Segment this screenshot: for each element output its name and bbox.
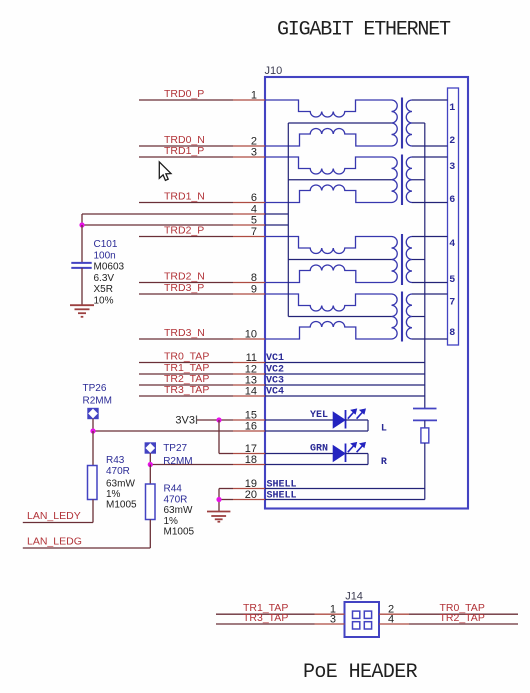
wire net row pin 16	[93, 430, 233, 432]
junction shell	[216, 497, 221, 502]
3V3 port tick	[196, 416, 198, 425]
connector J14 body	[345, 602, 380, 637]
transformer right winding y157.0	[406, 157, 412, 203]
wire LAN_LEDG	[23, 547, 151, 549]
left centre tap wire	[288, 179, 391, 181]
test point TP26	[88, 408, 98, 418]
wire LAN_LEDY	[23, 522, 93, 524]
wire right tap bus vertical	[424, 123, 426, 409]
LED GRN arrow	[357, 446, 363, 452]
right centre tap wire	[412, 316, 425, 318]
pin 19 stub	[233, 488, 265, 490]
transformer left winding y294.0	[392, 294, 398, 339]
ground C101 bar	[78, 312, 86, 314]
svg-text:63mW: 63mW	[106, 478, 135, 489]
pin 13 stub	[233, 384, 265, 386]
pin 17 stub	[233, 453, 265, 455]
svg-text:470R: 470R	[164, 494, 188, 505]
wire pin4 to pin5 vertical	[81, 214, 83, 225]
wire net row pin 7	[139, 236, 233, 238]
wire net row pin 8	[139, 282, 233, 284]
svg-text:J10: J10	[265, 65, 283, 77]
wire to R43	[92, 431, 94, 466]
J14 pin square	[364, 622, 371, 629]
capacitor plate top	[413, 408, 437, 410]
svg-text:5: 5	[449, 275, 455, 286]
svg-text:10: 10	[245, 329, 257, 341]
pin 15 stub	[233, 419, 265, 421]
svg-text:TP26: TP26	[83, 383, 107, 394]
svg-text:YEL: YEL	[310, 410, 328, 421]
J14 pin square	[353, 622, 360, 629]
wire net row pin 19	[219, 488, 233, 490]
wire LED YEL return	[265, 430, 368, 432]
wire net row pin 13	[139, 384, 233, 386]
transformer left winding y157.0	[392, 157, 398, 203]
svg-text:C101: C101	[94, 239, 118, 250]
svg-text:8: 8	[251, 272, 257, 284]
svg-text:TRD2_P: TRD2_P	[164, 225, 204, 237]
svg-text:4: 4	[388, 614, 394, 626]
svg-text:14: 14	[245, 386, 257, 398]
svg-text:3: 3	[251, 147, 257, 159]
wire LED YEL cathode	[346, 419, 369, 421]
right centre tap wire	[412, 259, 425, 261]
svg-text:6.3V: 6.3V	[94, 273, 115, 284]
svg-text:GIGABIT ETHERNET: GIGABIT ETHERNET	[277, 19, 451, 42]
pin 12 stub	[233, 373, 265, 375]
ground C101 bar	[81, 316, 84, 318]
wire net row pin 17	[219, 453, 233, 455]
ground shell bar	[207, 511, 230, 513]
svg-text:R: R	[381, 457, 387, 468]
wire SHELL 20 inside	[265, 499, 425, 501]
wire winding bottom to jack	[412, 202, 448, 204]
junction C101	[79, 222, 84, 227]
wire R43 to LAN_LEDY	[92, 500, 94, 523]
svg-text:M0603: M0603	[94, 262, 125, 273]
left centre tap wire	[288, 122, 391, 124]
wire TR0_TAP	[409, 613, 518, 615]
svg-text:LAN_LEDG: LAN_LEDG	[27, 536, 82, 548]
svg-text:7: 7	[449, 298, 455, 309]
resistor internal	[421, 428, 429, 443]
wire TP27 stem	[149, 453, 151, 464]
pin 1 stub	[233, 99, 265, 101]
svg-text:R2MM: R2MM	[83, 396, 112, 407]
right centre tap wire	[412, 122, 425, 124]
svg-text:R2MM: R2MM	[163, 456, 192, 467]
svg-text:GRN: GRN	[310, 444, 328, 455]
wire VC4 inside	[265, 395, 425, 397]
pin 9 stub	[233, 293, 265, 295]
wire TR1_TAP	[216, 613, 315, 615]
pin 2 stub	[233, 145, 265, 147]
wire winding top to jack	[412, 293, 448, 295]
wire VC2 inside	[265, 373, 425, 375]
capacitor plate bottom	[413, 419, 437, 421]
J14 pin 1 stub	[315, 613, 345, 615]
svg-text:R44: R44	[164, 484, 183, 495]
capacitor C101 plate bottom	[71, 267, 91, 269]
pin 16 stub	[233, 430, 265, 432]
wire net row pin 15	[197, 419, 234, 421]
wire net row pin 10	[139, 338, 233, 340]
svg-text:2: 2	[449, 136, 455, 147]
wire TP26 stem	[92, 419, 94, 431]
choke winding bottom y146.0	[265, 128, 392, 146]
LED GRN cathode bar	[345, 444, 347, 463]
J14 pin square	[364, 611, 371, 618]
J14 pin 2 stub	[379, 613, 409, 615]
LED GRN arrow	[348, 446, 354, 452]
svg-text:1%: 1%	[164, 516, 179, 527]
junction TP27	[148, 462, 153, 467]
wire net row pin 2	[139, 145, 233, 147]
svg-text:4: 4	[449, 239, 455, 250]
wire TR2_TAP	[409, 623, 518, 625]
svg-text:TRD1_P: TRD1_P	[164, 145, 204, 157]
svg-text:6: 6	[449, 195, 455, 206]
wire net row pin 20	[219, 499, 233, 501]
wire junction to C101	[81, 225, 83, 263]
junction TP26	[90, 428, 95, 433]
wire VC1 inside	[265, 362, 425, 364]
svg-text:7: 7	[251, 226, 257, 238]
choke winding bottom y202.5	[265, 185, 392, 203]
svg-text:470R: 470R	[106, 466, 130, 477]
wire winding top to jack	[412, 99, 448, 101]
resistor R43	[88, 466, 98, 500]
pin 11 stub	[233, 362, 265, 364]
pin 14 stub	[233, 395, 265, 397]
wire cap to resistor	[424, 420, 426, 428]
wire pin5 inside	[265, 224, 288, 226]
transformer right winding y236.5	[406, 237, 412, 283]
LED YEL arrow	[357, 412, 363, 418]
capacitor C101 plate top	[71, 262, 91, 264]
svg-text:3V3: 3V3	[175, 415, 195, 427]
LED YEL arrow	[348, 412, 354, 418]
wire net row pin 3	[139, 156, 233, 158]
wire net row pin 14	[139, 395, 233, 397]
pin 6 stub	[233, 202, 265, 204]
ground shell bar	[211, 515, 226, 517]
svg-text:TR2_TAP: TR2_TAP	[440, 612, 485, 624]
LED YEL cathode bar	[345, 410, 347, 429]
choke winding bottom y339.0	[265, 321, 392, 339]
wire R44 to LAN_LEDG	[149, 520, 151, 549]
svg-text:X5R: X5R	[94, 284, 113, 295]
test point TP27	[145, 443, 155, 453]
wire pin4 inside	[265, 213, 288, 215]
transformer left winding y100.0	[392, 100, 398, 146]
svg-text:PoE HEADER: PoE HEADER	[303, 661, 418, 684]
wire SHELL 19 inside	[265, 488, 425, 490]
wire LED GRN anode	[265, 453, 333, 455]
pin 4 stub	[233, 213, 265, 215]
pin 18 stub	[233, 464, 265, 466]
wire net row pin 11	[139, 362, 233, 364]
svg-text:20: 20	[245, 489, 257, 501]
svg-text:TRD3_N: TRD3_N	[164, 327, 205, 339]
wire winding bottom to jack	[412, 282, 448, 284]
svg-text:18: 18	[245, 454, 257, 466]
svg-text:3: 3	[330, 614, 336, 626]
wire TR3_TAP	[216, 623, 315, 625]
resistor R44	[146, 484, 156, 520]
ground C101 bar	[75, 308, 90, 310]
wire net row pin 4	[82, 213, 233, 215]
svg-text:M1005: M1005	[164, 527, 195, 538]
svg-text:1: 1	[251, 90, 257, 102]
svg-text:TRD3_P: TRD3_P	[164, 282, 204, 294]
svg-text:LAN_LEDY: LAN_LEDY	[27, 510, 81, 522]
wire net row pin 18	[150, 464, 233, 466]
pin 7 stub	[233, 236, 265, 238]
transformer core	[401, 292, 403, 342]
LED GRN triangle	[333, 446, 345, 462]
wire winding bottom to jack	[412, 145, 448, 147]
wire LED GRN loop vertical	[367, 454, 369, 465]
pin 20 stub	[233, 499, 265, 501]
wire net row pin 9	[139, 293, 233, 295]
svg-text:16: 16	[245, 421, 257, 433]
wire VC3 inside	[265, 384, 425, 386]
ground shell bar	[215, 518, 223, 520]
pin 3 stub	[233, 156, 265, 158]
svg-text:TP27: TP27	[163, 443, 187, 454]
connector J10 body	[265, 77, 468, 509]
choke winding top y100.0	[265, 100, 392, 117]
svg-text:TR3_TAP: TR3_TAP	[164, 384, 209, 396]
svg-text:11: 11	[246, 352, 257, 364]
wire shell to ground	[218, 489, 220, 512]
J14 pin 3 stub	[315, 623, 345, 625]
wire winding top to jack	[412, 156, 448, 158]
svg-text:1: 1	[449, 103, 455, 114]
svg-text:9: 9	[251, 284, 257, 296]
choke winding top y236.5	[265, 237, 392, 254]
pin 10 stub	[233, 338, 265, 340]
svg-text:6: 6	[251, 192, 257, 204]
svg-text:TR0_TAP: TR0_TAP	[164, 351, 209, 363]
svg-text:TRD2_N: TRD2_N	[164, 271, 205, 283]
wire left tap bus vertical	[287, 123, 289, 317]
wire 3V3 to pin17	[218, 420, 220, 454]
wire net row pin 5	[82, 224, 233, 226]
svg-text:3: 3	[449, 162, 455, 173]
wire net row pin 6	[139, 202, 233, 204]
wire to R44	[149, 465, 151, 485]
svg-text:J14: J14	[345, 591, 363, 603]
ground C101 bar	[70, 304, 94, 306]
J14 pin square	[353, 611, 360, 618]
wire winding bottom to jack	[412, 338, 448, 340]
wire resistor to shell	[424, 443, 426, 500]
choke winding top y157.0	[265, 157, 392, 174]
choke winding bottom y282.5	[265, 265, 392, 283]
junction 3V3	[216, 417, 221, 422]
svg-text:5: 5	[251, 215, 257, 227]
left centre tap wire	[288, 259, 391, 261]
J14 pin 4 stub	[379, 623, 409, 625]
wire LED YEL loop vertical	[367, 420, 369, 431]
wire net row pin 12	[139, 373, 233, 375]
left centre tap wire	[288, 316, 391, 318]
svg-text:L: L	[381, 424, 387, 435]
choke winding top y294.0	[265, 294, 392, 311]
LED YEL triangle	[333, 412, 345, 428]
wire LED GRN return	[265, 464, 368, 466]
svg-text:TRD1_N: TRD1_N	[164, 191, 205, 203]
mouse cursor	[159, 162, 171, 181]
svg-text:R43: R43	[106, 455, 125, 466]
svg-text:TRD0_P: TRD0_P	[164, 88, 204, 100]
J10 RJ45 pin strip	[448, 88, 459, 345]
pin 5 stub	[233, 224, 265, 226]
svg-text:1%: 1%	[106, 489, 121, 500]
transformer left winding y236.5	[392, 237, 398, 283]
svg-text:63mW: 63mW	[164, 505, 193, 516]
transformer core	[401, 98, 403, 149]
wire C101 to ground	[81, 268, 83, 305]
svg-text:M1005: M1005	[106, 500, 137, 511]
svg-text:TR3_TAP: TR3_TAP	[243, 612, 288, 624]
transformer core	[401, 234, 403, 285]
svg-text:100n: 100n	[94, 250, 116, 261]
svg-text:10%: 10%	[94, 296, 114, 307]
wire LED YEL anode	[265, 419, 333, 421]
transformer right winding y294.0	[406, 294, 412, 339]
right centre tap wire	[412, 179, 425, 181]
transformer right winding y100.0	[406, 100, 412, 146]
pin 8 stub	[233, 282, 265, 284]
wire LED GRN cathode	[346, 453, 369, 455]
wire winding top to jack	[412, 236, 448, 238]
ground shell bar	[218, 521, 221, 523]
svg-text:8: 8	[449, 328, 455, 339]
transformer core	[401, 155, 403, 206]
wire net row pin 1	[139, 99, 233, 101]
